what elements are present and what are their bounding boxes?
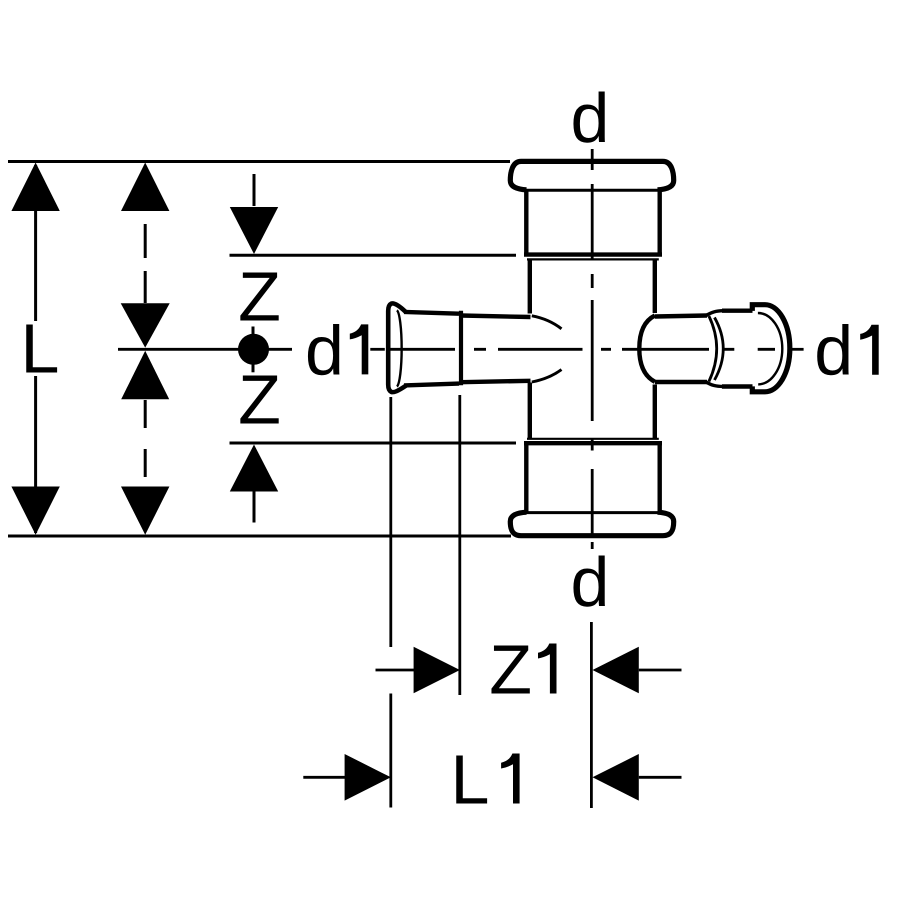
bowtie upper triangle — [121, 303, 170, 347]
right branch neck to socket bottom connector — [706, 382, 723, 387]
left branch neck bottom edge — [461, 381, 531, 382]
top socket wall left — [524, 191, 528, 255]
dimension Z shaft top — [253, 174, 256, 206]
right branch neck to socket top connector — [706, 311, 723, 316]
svg-text:d: d — [814, 312, 853, 390]
bottom socket bead base line — [525, 511, 659, 514]
dimension L shaft upper — [34, 165, 37, 321]
top socket stop thick line — [524, 252, 662, 256]
left branch bead — [388, 303, 406, 392]
arrow up L top — [11, 163, 59, 212]
horizontal centerline dashes through fitting — [390, 348, 775, 351]
L1 tail left — [303, 776, 345, 779]
L1 right arrow — [345, 754, 391, 801]
svg-text:L: L — [21, 309, 60, 387]
arrow down L bottom — [11, 487, 59, 535]
svg-text:Z: Z — [489, 631, 532, 709]
right branch bead — [752, 305, 790, 392]
svg-text:L: L — [451, 741, 490, 819]
left branch body fillet bottom — [532, 370, 562, 382]
top socket wall right — [658, 191, 662, 255]
Z1 left arrow — [593, 647, 639, 694]
L1 left arrow — [593, 754, 639, 801]
Z1 tail right — [639, 669, 682, 672]
left branch press line — [459, 311, 463, 386]
right branch neck top edge — [655, 316, 707, 317]
lower Z reference line — [230, 442, 517, 445]
extension line below fitting centerline — [590, 622, 593, 808]
dimension half shaft lower dashed — [144, 400, 147, 486]
right branch socket top edge — [722, 309, 753, 313]
bottom socket stop thick line — [524, 441, 662, 445]
body wall upper right — [653, 260, 657, 314]
right branch bead lip — [758, 313, 782, 384]
top socket bead base line — [525, 189, 659, 192]
right branch dome — [639, 316, 655, 382]
right branch socket bottom edge — [722, 384, 753, 388]
body wall lower left — [528, 383, 532, 439]
dimension Z shaft bottom — [253, 492, 256, 523]
svg-text:d: d — [305, 311, 344, 389]
node dot — [238, 334, 269, 365]
bottom socket wall right — [658, 443, 662, 512]
left branch socket top edge — [404, 312, 459, 314]
svg-text:Z: Z — [238, 360, 281, 438]
horizontal centerline solid left — [118, 348, 292, 351]
Z1 tail left — [376, 669, 415, 672]
bottom socket wall left — [524, 443, 528, 512]
left branch neck top edge — [461, 316, 531, 318]
arrow up Z lower — [230, 445, 278, 492]
Z1 right arrow — [414, 647, 460, 694]
extension line below left branch face — [389, 397, 392, 808]
bottom extent line — [8, 535, 511, 538]
bottom socket press thin line — [527, 438, 659, 440]
bowtie lower triangle — [121, 351, 169, 400]
horizontal centerline tick before right d1 — [791, 348, 804, 351]
right branch neck bottom edge — [655, 380, 707, 384]
vertical centerline dashes — [591, 149, 594, 549]
tick above dot — [252, 327, 255, 335]
dimension L shaft lower — [34, 376, 37, 533]
arrow down half bottom — [121, 487, 169, 535]
body wall upper left — [528, 260, 532, 314]
left branch socket bottom edge — [404, 384, 459, 386]
left branch bead lip — [397, 310, 402, 386]
dimension half shaft upper dashed — [144, 224, 147, 303]
right branch press arc 2 — [715, 318, 724, 381]
svg-text:d: d — [571, 79, 610, 157]
horizontal centerline tick before left d1 branch — [370, 348, 385, 351]
top socket bead — [510, 161, 673, 189]
svg-text:Z: Z — [238, 258, 281, 336]
svg-text:d: d — [571, 543, 610, 621]
left branch body fillet top — [532, 316, 562, 329]
arrow up half top — [121, 163, 169, 212]
tick below dot — [252, 365, 255, 373]
right branch press arc 1 — [709, 316, 717, 382]
top extent line — [8, 160, 510, 163]
bottom socket bead — [510, 512, 673, 536]
body wall lower right — [653, 385, 657, 439]
arrow down Z upper — [230, 207, 278, 254]
L1 tail right — [639, 776, 682, 779]
upper Z reference line — [230, 254, 517, 257]
top socket press thin line — [527, 258, 659, 260]
extension line below left branch press — [458, 395, 461, 695]
